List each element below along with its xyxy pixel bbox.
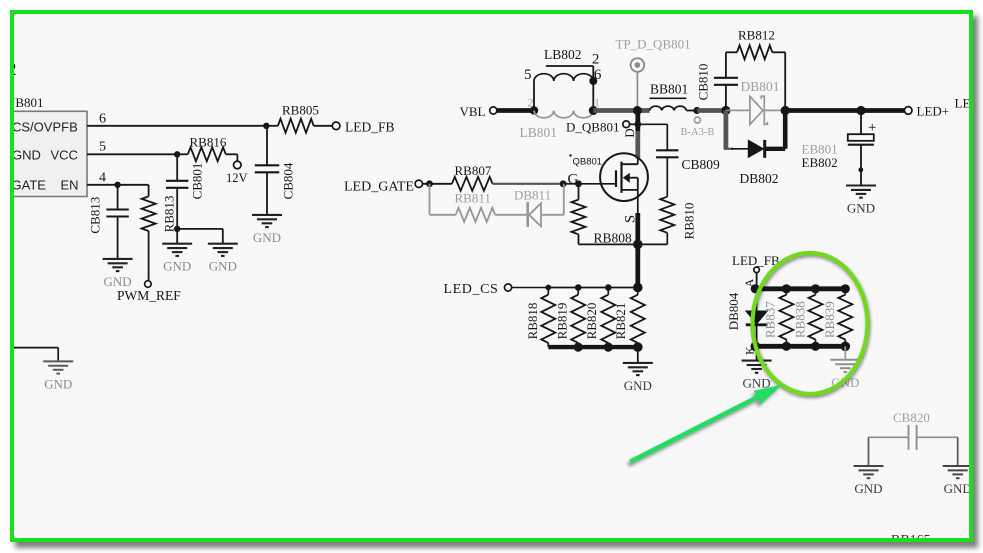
node LED+ rail left junction xyxy=(781,106,790,115)
wire bus to ground xyxy=(637,347,639,363)
ground under CB804 xyxy=(252,215,282,227)
svg-text:CB810: CB810 xyxy=(695,64,710,101)
svg-text:VBL: VBL xyxy=(460,104,486,119)
test point TP_D_QB801 xyxy=(631,58,645,72)
inductor LB802 xyxy=(533,81,535,111)
svg-text:CB813: CB813 xyxy=(88,197,103,234)
resistor RB837 xyxy=(785,289,787,295)
svg-text:GND: GND xyxy=(944,481,972,496)
node CB801 ground junction xyxy=(174,226,180,232)
svg-text:RB812: RB812 xyxy=(738,27,775,42)
ground under EB802 xyxy=(846,186,876,198)
node RB837 top junction xyxy=(782,284,791,293)
capacitor CB809 xyxy=(656,150,678,157)
svg-text:LED_CS: LED_CS xyxy=(444,282,499,297)
svg-text:B-A3-B: B-A3-B xyxy=(681,127,715,138)
node pin4/CB813 junction xyxy=(114,182,120,188)
transistor QB801 (N-MOSFET) xyxy=(600,153,648,201)
svg-text:CB820: CB820 xyxy=(893,410,930,425)
wire DB804 top bus (bold) xyxy=(755,286,845,291)
svg-text:GATE: GATE xyxy=(12,178,47,193)
wire drain vertical bold black xyxy=(635,111,640,132)
svg-text:UB801: UB801 xyxy=(10,95,44,110)
wire LED_CS to resistor bank xyxy=(512,287,549,289)
svg-text:LB801: LB801 xyxy=(520,125,558,140)
diode DB811 (gray) xyxy=(526,202,529,227)
svg-text:12V: 12V xyxy=(226,171,248,185)
svg-text:5: 5 xyxy=(524,67,532,83)
node bus/testpoint junction xyxy=(633,106,642,115)
svg-text:LED_GATE: LED_GATE xyxy=(344,179,414,194)
svg-text:LED_FB: LED_FB xyxy=(732,253,780,268)
svg-text:D: D xyxy=(622,128,637,137)
ground right of CB801 xyxy=(208,244,238,256)
ground under RB821 xyxy=(623,363,653,375)
node RB820 top junction xyxy=(605,284,612,291)
wire BB801 to CB810 node (dark gray bold) xyxy=(697,108,726,113)
svg-text:EN: EN xyxy=(61,178,79,193)
svg-text:2: 2 xyxy=(528,96,534,110)
ground right of CB820 xyxy=(943,466,973,478)
svg-text:LED: LED xyxy=(955,96,973,111)
svg-text:LB802: LB802 xyxy=(544,47,582,62)
capacitor EB801/EB802 xyxy=(860,111,862,135)
wire pin4 to RB813 xyxy=(87,184,149,186)
resistor RB813 xyxy=(148,185,150,197)
svg-text:RB820: RB820 xyxy=(584,303,599,340)
wire drain vertical bold gray xyxy=(635,131,640,159)
resistor RB821 xyxy=(637,288,639,295)
wire bottom bus of RB818-RB821 (bold) xyxy=(548,345,638,349)
svg-text:CB804: CB804 xyxy=(280,162,295,199)
terminal LED_FB xyxy=(332,122,340,130)
wire gray loop right xyxy=(541,214,564,216)
node CB810/DB801 junction xyxy=(721,106,730,115)
wire source thin xyxy=(637,190,639,213)
wire pin6 to RB805 node xyxy=(87,125,266,127)
ground under CB813 xyxy=(103,259,133,271)
svg-text:2: 2 xyxy=(592,51,600,67)
diode DB801 (gray) xyxy=(726,109,750,111)
node RB820 bottom junction xyxy=(604,343,613,352)
svg-text:CB801: CB801 xyxy=(190,163,205,200)
annotation ellipse (green) xyxy=(753,253,868,394)
svg-text:GND: GND xyxy=(12,148,41,163)
wire CB801 to right ground xyxy=(177,228,223,230)
diode DB802 xyxy=(731,148,748,150)
resistor RB807 xyxy=(452,177,493,191)
wire gray loop left xyxy=(429,184,431,215)
svg-text:RB808: RB808 xyxy=(594,231,633,246)
wire CB820 left to ground xyxy=(868,437,870,466)
svg-text:RB821: RB821 xyxy=(613,303,628,340)
terminal D_QB801 xyxy=(623,121,630,128)
svg-text:GND: GND xyxy=(44,376,72,391)
svg-text:GND: GND xyxy=(854,481,882,496)
svg-text:CB809: CB809 xyxy=(682,157,721,172)
diode DB804 xyxy=(756,289,758,311)
capacitor CB810 xyxy=(725,85,727,111)
wire RB810 to source node xyxy=(666,233,668,245)
svg-text:2: 2 xyxy=(10,59,17,79)
node DB804 bus left junction xyxy=(751,284,760,293)
capacitor CB820 (gray) xyxy=(869,436,909,438)
resistor RB839 xyxy=(844,289,846,295)
svg-text:VCC: VCC xyxy=(51,148,78,163)
svg-text:DB804: DB804 xyxy=(726,292,741,330)
svg-text:RB807: RB807 xyxy=(455,163,492,178)
terminal VBL xyxy=(490,107,497,114)
terminal LED_CS xyxy=(505,284,512,291)
resistor RB816 xyxy=(177,153,188,155)
terminal B-A3-B (gray) xyxy=(694,117,700,123)
wire RB807 to gate node (dark) xyxy=(493,183,563,185)
wire D_QB801 terminal to drain xyxy=(630,123,639,125)
wire LB802 pin2 stub xyxy=(546,65,594,67)
svg-text:CS/OVPFB: CS/OVPFB xyxy=(12,119,78,134)
node pin5/CB801 junction xyxy=(174,151,180,157)
capacitor CB804 xyxy=(266,126,268,166)
resistor RB820 xyxy=(607,288,609,295)
wire VBL bold xyxy=(497,108,534,113)
wire D node to CB809 xyxy=(638,123,668,125)
svg-text:RB839: RB839 xyxy=(822,301,837,338)
svg-text:D_QB801: D_QB801 xyxy=(566,120,619,135)
wire junction to gate xyxy=(563,183,578,185)
ground left of CB801 xyxy=(162,244,192,256)
svg-text:GND: GND xyxy=(163,259,191,274)
svg-text:RB810: RB810 xyxy=(681,203,696,240)
svg-text:DB811: DB811 xyxy=(514,188,551,203)
terminal LED+ xyxy=(904,107,912,115)
wire RB839 to right ground (gray) xyxy=(844,346,846,360)
wire LED_FB to bus xyxy=(756,273,758,289)
node source/RB808/RB810 junction xyxy=(633,240,643,250)
svg-text:RB816: RB816 xyxy=(190,135,227,150)
svg-text:GND: GND xyxy=(209,259,237,274)
node RB818 top junction xyxy=(545,285,551,291)
svg-text:LED+: LED+ xyxy=(917,104,950,119)
node RB819 bottom junction xyxy=(574,343,583,352)
wire LED+ rail (bold) xyxy=(785,108,904,113)
resistor RB838 xyxy=(815,289,817,295)
capacitor CB813 xyxy=(117,185,119,210)
svg-text:RB811: RB811 xyxy=(455,191,491,206)
resistor RB819 xyxy=(577,288,579,295)
node RB838 bottom junction xyxy=(811,342,820,351)
terminal 12V xyxy=(234,161,242,169)
svg-text:RB805: RB805 xyxy=(282,102,319,117)
svg-text:RB838: RB838 xyxy=(792,301,807,338)
ground left of CB820 xyxy=(854,466,884,478)
svg-text:GND: GND xyxy=(253,230,281,245)
resistor RB812 xyxy=(726,51,737,53)
svg-text:RB813: RB813 xyxy=(161,196,176,233)
wire source bold xyxy=(635,213,640,288)
node LB801/LB802 right junction xyxy=(589,106,598,115)
capacitor CB801 xyxy=(176,154,178,181)
node BB801 right junction xyxy=(693,107,700,114)
wire gate xyxy=(579,183,617,185)
node D_QB801 junction xyxy=(634,121,641,128)
node RB807/DB811 junction xyxy=(560,180,567,187)
svg-text:6: 6 xyxy=(594,67,602,83)
svg-text:RB818: RB818 xyxy=(525,303,540,340)
node RB838 top junction xyxy=(811,284,820,293)
node EB802 junction xyxy=(856,106,865,115)
ground right of RB839 (gray) xyxy=(830,360,860,372)
node RB839 bottom junction xyxy=(841,342,851,352)
node VBL junction xyxy=(530,106,538,114)
node LED_GATE junction xyxy=(426,180,433,187)
node RB821 bottom junction xyxy=(633,342,643,352)
resistor RB811 (gray) xyxy=(456,208,496,222)
wire CB820 right to ground xyxy=(957,437,959,466)
wire drain thin xyxy=(637,159,639,165)
annotation arrow (green) xyxy=(630,385,782,462)
svg-text:QB801: QB801 xyxy=(573,157,603,168)
op-amp/controller IC UB801 (clipped at left edge) xyxy=(0,111,87,196)
svg-text:LED_FB: LED_FB xyxy=(345,119,395,134)
wire pin5 to CB801 node xyxy=(87,153,177,155)
ground under DB804 xyxy=(742,361,772,373)
svg-text:RB165: RB165 xyxy=(891,533,931,542)
resistor RB818 xyxy=(547,288,549,295)
wire LED_GATE to RB807 xyxy=(423,183,452,185)
wire DB802 up to LED+ rail (bold) xyxy=(783,108,788,149)
svg-text:DB801: DB801 xyxy=(741,79,780,94)
terminal LED_FB lower xyxy=(754,267,760,273)
node LB802 pin6 junction xyxy=(589,77,597,85)
wire CB809 to RB810 xyxy=(666,157,668,196)
terminal PWM_REF xyxy=(145,281,152,288)
resistor RB810 xyxy=(660,197,674,233)
node RB819 top junction xyxy=(575,284,582,291)
node RB821 top junction xyxy=(633,283,643,293)
wire RB811 to DB811 (gray) xyxy=(495,214,528,216)
wire main bus VBL to BB801 (dark gray bold) xyxy=(593,108,649,113)
svg-text:GND: GND xyxy=(624,378,652,393)
wire from left edge to ground xyxy=(10,347,58,349)
node EB802 lower dot xyxy=(858,167,863,172)
node gate junction xyxy=(575,180,582,187)
inductor LB801 (gray) xyxy=(534,111,593,118)
resistor RB808 xyxy=(578,184,580,200)
svg-text:5: 5 xyxy=(99,140,106,155)
node RB839 top junction xyxy=(841,284,850,293)
svg-text:GND: GND xyxy=(104,274,132,289)
svg-text:GND: GND xyxy=(847,201,875,216)
svg-text:4: 4 xyxy=(99,171,106,186)
svg-text:6: 6 xyxy=(99,112,106,127)
svg-text:RB837: RB837 xyxy=(762,301,777,338)
wire CB810-node down to DB802 (dark gray bold) xyxy=(724,111,729,149)
node RB837 bottom junction xyxy=(782,342,791,351)
svg-text:EB802: EB802 xyxy=(802,155,838,170)
svg-text:BB801: BB801 xyxy=(650,82,688,97)
terminal LED_GATE xyxy=(415,180,422,187)
wire test point to bus (gray) xyxy=(636,72,638,108)
svg-text:DB802: DB802 xyxy=(740,171,779,186)
wire CB801 to left ground xyxy=(176,229,178,244)
resistor RB805 xyxy=(266,125,278,127)
svg-text:TP_D_QB801: TP_D_QB801 xyxy=(616,37,691,52)
svg-text:PWM_REF: PWM_REF xyxy=(117,288,181,303)
node pin6/CB804 junction xyxy=(263,123,269,129)
svg-text:RB819: RB819 xyxy=(554,303,569,340)
ground bottom-left xyxy=(43,361,73,373)
node bottom bus left junction xyxy=(751,342,761,352)
ferrite bead BB801 underline xyxy=(650,97,687,99)
wire DB804 bottom bus (bold) xyxy=(755,344,845,349)
ferrite bead BB801 xyxy=(650,106,687,110)
